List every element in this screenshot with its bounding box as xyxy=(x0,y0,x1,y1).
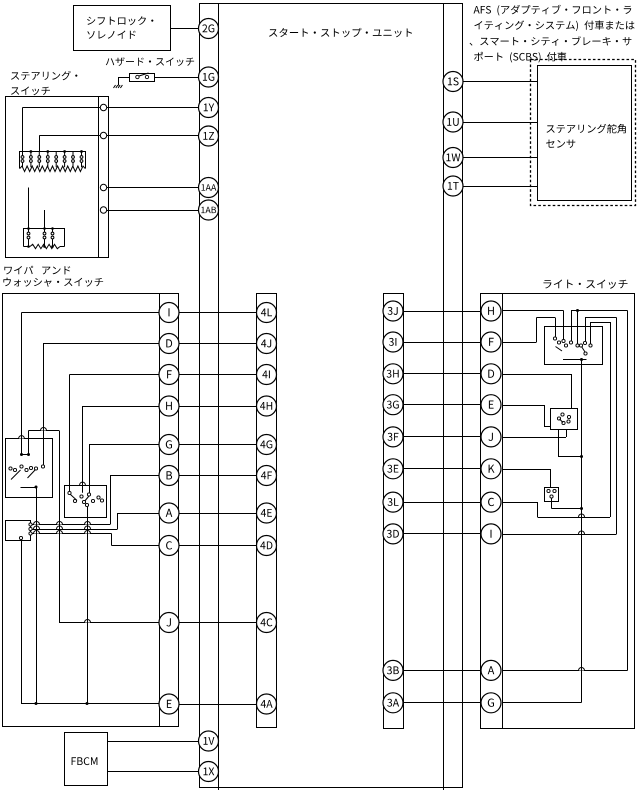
light passing switch contact (548.5,491) xyxy=(547,489,550,492)
wire wiper pin C to unit pin 4D xyxy=(179,545,257,547)
wiper relay common contact xyxy=(85,503,88,506)
pin I of wiper switch xyxy=(159,303,179,323)
label steering angle sensor line2 (センサ) xyxy=(546,140,575,148)
hop of C route over G net xyxy=(579,514,585,520)
wire wiper pin B to unit pin 4F xyxy=(179,475,257,477)
wire wiper pin A to unit pin 4E xyxy=(179,513,257,515)
wire 1Y inside steering (horizontal) xyxy=(23,107,101,109)
wire unit pin 3A to light switch pin G xyxy=(403,702,481,704)
wire C lt lower (horizontal) xyxy=(538,517,611,519)
steering ladder resistor chain R-chain xyxy=(20,166,86,172)
light dimmer switch box xyxy=(551,409,578,430)
wire wiper pin G to unit pin 4G xyxy=(179,444,257,446)
washer switch terminal at y=533.5 xyxy=(29,532,32,535)
wire unit pin 3E to light switch pin K xyxy=(403,468,481,470)
wire I lt top (horizontal) xyxy=(585,317,617,319)
pin 3F of start-stop unit xyxy=(383,427,403,447)
wire unit pin 3H to light switch pin D xyxy=(403,373,481,375)
steering switch resistor ladder frame xyxy=(20,152,86,169)
light dimmer contact (563.5,423) xyxy=(562,421,565,424)
steering switch terminal bubble 1Y xyxy=(100,104,106,110)
wire wiper relay common (vertical) xyxy=(87,507,89,704)
wiper relay switch contact (81.5,496.5) xyxy=(80,495,83,498)
wire wiper pin D to unit pin 4J xyxy=(179,343,257,345)
steering lower block bottom node 3 xyxy=(51,245,54,248)
pin 3I of start-stop unit xyxy=(383,332,403,352)
ground symbol xyxy=(114,85,123,88)
wire H lt branch (horizontal) xyxy=(502,310,564,312)
wire E lt into dimmer (horizontal) xyxy=(544,426,551,428)
steering lower block top node 3 xyxy=(51,227,54,230)
wire B riser (vertical) xyxy=(110,476,112,525)
wiper relay blade 2 xyxy=(85,496,89,501)
steering switch connector strip line xyxy=(98,97,100,258)
pin F of light switch xyxy=(481,332,501,352)
wire steering to pin 1AB xyxy=(107,210,199,212)
wire G lt branch (horizontal) xyxy=(502,702,582,704)
wire D lt drop (vertical) xyxy=(571,374,573,408)
steering switch box xyxy=(6,97,109,258)
wire I lt branch (horizontal) xyxy=(502,534,617,536)
steering lower block bottom node 2 xyxy=(43,245,46,248)
steering lower switch SW11 xyxy=(51,229,54,247)
light main switch contact (571,342.5) xyxy=(569,341,572,344)
wire F lt riser (vertical) xyxy=(536,318,538,343)
wire I lt riser (vertical) xyxy=(616,318,618,535)
junction I-J node b xyxy=(27,453,30,456)
wire D branch (horizontal) xyxy=(43,343,159,345)
wiper mode switch contact (15,470) xyxy=(13,468,16,471)
wire J net (long vertical) xyxy=(59,431,61,623)
light main switch contact (577.5,345.5) xyxy=(576,344,579,347)
pin 3A of start-stop unit xyxy=(383,693,403,713)
washer switch common contact xyxy=(19,536,22,539)
wire K lt branch (horizontal) xyxy=(502,469,551,471)
pin G of light switch xyxy=(481,693,501,713)
wire I lt stub (vertical) xyxy=(585,318,587,342)
wire D branch (vertical) xyxy=(43,344,45,465)
hop of J branch over washer common xyxy=(85,620,91,626)
wire steering to pin 1Y xyxy=(107,107,199,109)
wiper mode switch contact (36,468.5) xyxy=(34,467,37,470)
steering lower switch SW9 xyxy=(27,229,30,247)
wiper relay blade 1 xyxy=(71,495,78,501)
wire steering to pin 1AA xyxy=(107,187,199,189)
start-stop unit left connector strip line xyxy=(218,4,220,790)
wire FBCM to pin 1X xyxy=(107,771,199,773)
wire washer common (vertical) xyxy=(21,540,23,704)
pin 3J of start-stop unit xyxy=(383,301,403,321)
steering ladder switch SW3 xyxy=(38,152,41,168)
wiper mode switch common node xyxy=(35,486,38,489)
wiper relay switch box xyxy=(65,486,107,518)
junction A net xyxy=(576,309,579,312)
wire steering 1AA branch (vertical) xyxy=(28,188,30,229)
steering ladder tap node at x=81.5 xyxy=(80,150,83,153)
wire J lt riser (vertical) xyxy=(566,429,568,437)
steering ladder switch SW7 xyxy=(72,152,75,168)
FBCM box xyxy=(65,733,108,786)
pin K of light switch xyxy=(481,459,501,479)
start-stop unit U1 outline xyxy=(200,4,463,788)
wire dimmer out (horizontal) xyxy=(558,456,582,458)
wire J net (upper horizontal) xyxy=(29,430,60,432)
light main switch common node xyxy=(580,358,583,361)
pin C of light switch xyxy=(481,492,501,512)
pin 4I of start-stop unit xyxy=(257,365,277,385)
pin 4J of start-stop unit xyxy=(257,334,277,354)
wire C lt branch (horizontal) xyxy=(502,502,538,504)
light dimmer contact (568.5,421.5) xyxy=(567,420,570,423)
pin 4C of start-stop unit xyxy=(257,613,277,633)
washer switch terminal at y=524.5 xyxy=(29,523,32,526)
pin 4D of start-stop unit xyxy=(257,536,277,556)
hop of I branch over G net xyxy=(579,531,585,537)
wire pin 1T to sensor xyxy=(463,186,538,188)
pin J of light switch xyxy=(481,427,501,447)
pin 1X of start-stop unit xyxy=(199,762,219,782)
wire C lt drop (vertical) xyxy=(537,502,539,517)
hop of box edge over I wire xyxy=(19,436,25,442)
wire unit pin 3D to light switch pin I xyxy=(403,533,481,535)
wiper switch connector strip line xyxy=(159,294,161,727)
label FBCM xyxy=(72,757,98,765)
label hazard switch (ハザード・スイッチ) xyxy=(106,57,194,66)
wire dimmer out (vertical) xyxy=(558,429,560,457)
label wiper and washer switch line1a xyxy=(4,266,33,275)
wiper mode switch blade 1 xyxy=(11,470,21,480)
light main switch contact (559,342.5) xyxy=(557,341,560,344)
wire C lt top (horizontal) xyxy=(591,322,611,324)
light main switch blade 1 xyxy=(556,347,563,352)
wire washer sw to A (horizontal) xyxy=(32,529,117,531)
pin 3B of start-stop unit xyxy=(383,660,403,680)
wire passing out (horizontal) xyxy=(552,508,582,510)
pin 1T of start-stop unit xyxy=(443,176,463,196)
pin 1S of start-stop unit xyxy=(443,72,463,92)
steering ladder switch SW1 xyxy=(21,152,24,168)
note AFS line3 xyxy=(470,36,632,46)
pin 1AA of start-stop unit xyxy=(199,178,219,198)
wire unit pin 3B to light switch pin A xyxy=(403,670,481,672)
wiper mode switch contact (26.5,470) xyxy=(25,468,28,471)
label steering angle sensor line1 (ステアリング舵角) xyxy=(547,124,626,133)
pin 2G of start-stop unit xyxy=(199,19,219,39)
wire hazard to ground xyxy=(119,77,130,79)
wiper mode switch common bar xyxy=(21,487,37,489)
wiper mode switch contact (21.5,466.5) xyxy=(20,465,23,468)
wiper mode switch contact (10.5,468.5) xyxy=(9,467,12,470)
wire E lt drop (vertical) xyxy=(544,405,546,426)
pin 4A of start-stop unit xyxy=(257,694,277,714)
pin E of wiper switch xyxy=(159,694,179,714)
wire K lt drop (vertical) xyxy=(550,469,552,488)
wire C lt stub (vertical) xyxy=(590,322,592,344)
light main switch contact (585,343) xyxy=(583,341,586,344)
steering lower block top node 2 xyxy=(43,227,46,230)
pin 4L of start-stop unit xyxy=(257,303,277,323)
wire 1Z inside steering (vertical) xyxy=(39,136,41,152)
wire D lt branch (horizontal) xyxy=(502,374,571,376)
pin I of light switch xyxy=(481,524,501,544)
pin G of wiper switch xyxy=(159,435,179,455)
unit connector strip 4x xyxy=(257,294,277,728)
steering ladder tap node at x=64.6 xyxy=(63,150,66,153)
wire pin 1U to sensor xyxy=(463,122,538,124)
wire F branch (vertical) xyxy=(69,375,71,492)
wire passing out (vertical) xyxy=(551,498,553,508)
wire J branch (horizontal) xyxy=(59,622,159,624)
pin B of wiper switch xyxy=(159,466,179,486)
wire 1Z inside steering (horizontal) xyxy=(39,135,100,137)
wire F lt top (horizontal) xyxy=(537,317,556,319)
hazard switch box xyxy=(130,74,155,82)
pin 3G of start-stop unit xyxy=(383,395,403,415)
pin 4E of start-stop unit xyxy=(257,503,277,523)
hop at (36,529) xyxy=(34,526,40,532)
wiper mode switch contact (31,468) xyxy=(29,466,32,469)
label shift lock solenoid line2 xyxy=(87,31,135,39)
wire washer sw to B (horizontal) xyxy=(32,524,110,526)
wire A branch (horizontal) xyxy=(118,513,160,515)
pin 3E of start-stop unit xyxy=(383,459,403,479)
light main switch contact (563.5,341) xyxy=(562,339,565,342)
wire wiper pin H to unit pin 4H xyxy=(179,406,257,408)
steering switch terminal bubble 1Z xyxy=(100,132,106,138)
wiper switch box xyxy=(3,294,179,727)
label steering switch line2 xyxy=(11,87,50,96)
pin 3L of start-stop unit xyxy=(383,492,403,512)
light main switch contact (581,345.5) xyxy=(579,344,582,347)
label shift lock solenoid line1 xyxy=(87,16,153,25)
light main switch contact (566,345.5) xyxy=(564,344,567,347)
wire washer sw to C (horizontal) xyxy=(32,533,111,535)
pin A of light switch xyxy=(481,660,501,680)
steering ladder switch SW8 xyxy=(80,152,83,168)
wire steering 1AB branch (vertical) xyxy=(44,210,46,229)
pin H of light switch xyxy=(481,301,501,321)
pin 3H of start-stop unit xyxy=(383,364,403,384)
hop at (59,524.5) xyxy=(57,522,63,528)
wire I to J link xyxy=(22,454,29,456)
unit connector strip 3x xyxy=(384,294,404,729)
steering lower block resistor chain xyxy=(24,246,31,248)
light switch connector strip line xyxy=(502,294,504,729)
wire pin 1S to sensor xyxy=(463,81,538,83)
light dimmer blade xyxy=(560,419,564,423)
wire F lt branch (horizontal) xyxy=(502,342,537,344)
pin C of wiper switch xyxy=(159,536,179,556)
light main switch common bar xyxy=(563,359,587,361)
wire unit pin 3L to light switch pin C xyxy=(403,502,481,504)
wire hazard ground drop xyxy=(118,77,120,86)
wiper mode switch blade 2 xyxy=(28,470,36,479)
wire FBCM to pin 1V xyxy=(107,741,199,743)
label wiper and washer switch line2 xyxy=(3,278,103,287)
wire J lt branch (horizontal) xyxy=(502,437,566,439)
pin F of wiper switch xyxy=(159,365,179,385)
pin 1Z of start-stop unit xyxy=(199,126,219,146)
note AFS line2 xyxy=(474,20,634,31)
hazard switch blade xyxy=(139,73,149,76)
label light switch (ライト・スイッチ) xyxy=(544,280,628,289)
wire unit pin 3G to light switch pin E xyxy=(403,404,481,406)
pin 1V of start-stop unit xyxy=(199,731,219,751)
note AFS line1 xyxy=(474,5,632,16)
hop of relay box edge over H wire xyxy=(80,482,86,488)
label wiper and washer switch line1b xyxy=(42,266,70,274)
pin 1AB of start-stop unit xyxy=(199,200,219,220)
hop at (87,529) xyxy=(85,526,91,532)
junction relay common on E xyxy=(86,702,89,705)
hop at (36,524.5) xyxy=(34,522,40,528)
wiper relay switch contact (89,494.5) xyxy=(87,493,90,496)
steering lower block bottom node 1 xyxy=(27,245,30,248)
pin E of light switch xyxy=(481,395,501,415)
steering ladder switch SW4 xyxy=(46,152,49,168)
wiper relay switch contact (69.5,493) xyxy=(68,491,71,494)
hop at (87,524.5) xyxy=(85,522,91,528)
wire H branch (vertical) xyxy=(82,406,84,493)
hop at (87,533.5) xyxy=(85,531,91,537)
pin H of wiper switch xyxy=(159,396,179,416)
light passing switch box xyxy=(545,488,559,502)
steering ladder tap node at x=30.9 xyxy=(30,150,33,153)
steering ladder switch SW5 xyxy=(55,152,58,168)
wire A riser (vertical) xyxy=(117,513,119,529)
steering ladder switch SW2 xyxy=(30,152,33,168)
pin A of wiper switch xyxy=(159,503,179,523)
wire steering to pin 1Z xyxy=(107,135,199,137)
wiper relay switch contact (93,501) xyxy=(91,499,94,502)
light main switch contact (585.5,353.5) xyxy=(584,352,587,355)
wire pin 1W to sensor xyxy=(463,157,538,159)
wire J net (vertical from switch) xyxy=(28,431,30,455)
hop of A branch over G net xyxy=(579,668,585,674)
wire hazard to pin 1G xyxy=(155,77,199,79)
junction wiper-mode common on E xyxy=(35,702,38,705)
wire wiper pin E to unit pin 4A xyxy=(179,704,257,706)
wire unit pin 3J to light switch pin H xyxy=(403,311,481,313)
hop at (59,529) xyxy=(57,526,63,532)
steering lower block top node 1 xyxy=(27,227,30,230)
pin 4F of start-stop unit xyxy=(257,466,277,486)
wire unit pin 3F to light switch pin J xyxy=(403,436,481,438)
wire C lt riser (vertical) xyxy=(610,322,612,517)
wire A net stub 2 (vertical) xyxy=(577,311,579,344)
hop at (36,533.5) xyxy=(34,531,40,537)
wire wiper pin J to unit pin 4C xyxy=(179,622,257,624)
wire 1Y inside steering (vertical) xyxy=(22,108,24,152)
wire I branch (vertical) xyxy=(21,313,23,455)
light main switch blade 2 xyxy=(582,347,586,353)
shift lock solenoid box xyxy=(74,6,171,51)
wire solenoid to pin 2G xyxy=(171,28,199,30)
washer switch box xyxy=(6,521,31,541)
wiper mode switch contact (43,466.5) xyxy=(41,465,44,468)
wire F lt drop (vertical) xyxy=(555,318,557,337)
note AFS line4 xyxy=(474,52,566,63)
pin J of wiper switch xyxy=(159,613,179,633)
pin D of light switch xyxy=(481,364,501,384)
hop of J net over D branch xyxy=(41,428,47,434)
pin 1W of start-stop unit xyxy=(443,148,463,168)
pin D of wiper switch xyxy=(159,334,179,354)
wire F branch (horizontal) xyxy=(70,374,160,376)
hazard switch contact left xyxy=(136,75,139,78)
wire H branch (horizontal) xyxy=(82,406,159,408)
wiper mode switch box xyxy=(6,439,53,498)
junction I-J node a xyxy=(20,453,23,456)
pin 1U of start-stop unit xyxy=(443,112,463,132)
wiper relay switch contact (75,501) xyxy=(73,499,76,502)
wire E branch (horizontal) xyxy=(21,703,159,705)
wire A lt branch (horizontal) xyxy=(502,670,628,672)
wire wiper mode common (vertical) xyxy=(36,487,38,704)
wire B branch (horizontal) xyxy=(110,475,159,477)
steering angle sensor box xyxy=(538,66,632,201)
light switch box xyxy=(481,294,635,729)
hop at (59,533.5) xyxy=(57,531,63,537)
wire wiper pin I to unit pin 4L xyxy=(179,312,257,314)
wiper relay switch contact (98.5,497.5) xyxy=(97,496,100,499)
light passing switch contact (551.5,496.5) xyxy=(550,495,553,498)
steering switch terminal bubble AB xyxy=(100,207,106,213)
pin 4H of start-stop unit xyxy=(257,396,277,416)
steering lower switch SW10 xyxy=(43,229,46,247)
light main switch contact (590.5,345.5) xyxy=(589,344,592,347)
steering switch terminal bubble AA xyxy=(100,184,106,190)
wire A net stub 1 (vertical) xyxy=(571,311,573,341)
wire wiper pin F to unit pin 4I xyxy=(179,374,257,376)
pin 3D of start-stop unit xyxy=(383,524,403,544)
light dimmer contact (559,418.5) xyxy=(557,417,560,420)
washer switch terminal at y=529 xyxy=(29,527,32,530)
pin 4G of start-stop unit xyxy=(257,435,277,455)
light passing switch contact (554.5,491) xyxy=(553,489,556,492)
label start-stop unit (スタート・ストップ・ユニット) xyxy=(269,28,412,37)
wire A net (long vertical) xyxy=(627,311,629,671)
steering lower switch block frame xyxy=(24,229,65,247)
AFS option dashed box xyxy=(531,60,636,206)
wire I branch (horizontal) xyxy=(22,312,160,314)
light dimmer contact (569,417) xyxy=(567,415,570,418)
wire C dropper (vertical) xyxy=(111,534,113,546)
wire G branch (horizontal) xyxy=(89,444,159,446)
wire A net top (horizontal) xyxy=(571,310,628,312)
label steering switch line1 xyxy=(11,71,77,80)
junction G net and L3 out xyxy=(580,507,583,510)
wiper relay switch contact (84,502) xyxy=(82,500,85,503)
pin 1Y of start-stop unit xyxy=(199,98,219,118)
light main switch box xyxy=(545,327,603,365)
wire C branch (horizontal) xyxy=(112,545,160,547)
light main switch contact (555,338.5) xyxy=(553,337,556,340)
wiper relay switch contact (102,500.5) xyxy=(100,499,103,502)
pin 1G of start-stop unit xyxy=(199,67,219,87)
wire G branch (vertical) xyxy=(89,445,91,493)
light dimmer contact (562.5,414.5) xyxy=(561,413,564,416)
steering ladder switch SW6 xyxy=(63,152,66,168)
hazard switch contact right xyxy=(145,75,148,78)
wire unit pin 3I to light switch pin F xyxy=(403,342,481,344)
wire H lt (vertical) xyxy=(563,311,565,340)
junction G net and L2 out xyxy=(580,455,583,458)
start-stop unit right connector strip line xyxy=(443,4,445,790)
wire G net (long vertical) xyxy=(581,360,583,703)
wire E lt branch (horizontal) xyxy=(502,405,544,407)
steering ladder tap node at x=47.8 xyxy=(46,150,49,153)
